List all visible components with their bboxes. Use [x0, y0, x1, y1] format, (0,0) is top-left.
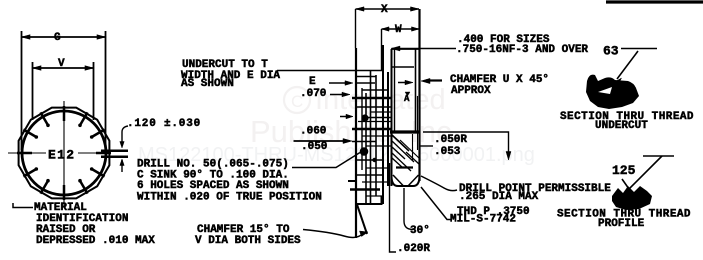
material leader: [13, 203, 33, 208]
dimension G arrowheads: [22, 35, 106, 39]
section blob profile: [612, 186, 652, 210]
svg-text:.053: .053: [434, 146, 461, 158]
svg-text:APPROX: APPROX: [451, 85, 491, 97]
svg-text:V DIA BOTH SIDES: V DIA BOTH SIDES: [195, 235, 301, 247]
head inner step: [392, 66, 414, 68]
extension line V left: [32, 62, 34, 120]
dimension G line: [22, 36, 106, 38]
svg-text:63: 63: [603, 44, 619, 59]
inner vertical shank line: [415, 49, 417, 131]
svg-text:.070: .070: [300, 88, 326, 100]
svg-text:30°: 30°: [410, 225, 430, 237]
chamfer15 leader: [303, 230, 363, 238]
.070 leader: [330, 94, 346, 96]
svg-text:WITHIN .020 OF TRUE POSITION: WITHIN .020 OF TRUE POSITION: [137, 192, 322, 204]
flange line thick: [390, 130, 420, 133]
border line top right: [606, 0, 703, 3]
svg-text:.120 ±.030: .120 ±.030: [127, 118, 201, 130]
svg-text:.050: .050: [301, 141, 327, 153]
section lattice horizontals: [356, 76, 376, 78]
svg-text:.265 DIA MAX: .265 DIA MAX: [459, 191, 539, 203]
svg-text:Integrated: Integrated: [315, 84, 446, 116]
svg-text:6 HOLES SPACED AS SHOWN: 6 HOLES SPACED AS SHOWN: [137, 180, 289, 192]
63 finish symbol: [621, 48, 657, 50]
section blob undercut: [586, 75, 639, 109]
.050R top leader with corner arrow: [423, 132, 509, 155]
12-point ticks: [17, 106, 111, 200]
bolt tip bottom edge with rounded corners: [392, 176, 420, 186]
svg-text:E: E: [309, 76, 316, 88]
tiny arrow above A label: [405, 92, 410, 96]
watermark line1 (c) Integrated: [138, 84, 535, 166]
W dimension line: [382, 28, 420, 30]
tip chamfer diagonals: [393, 175, 403, 186]
E leader: [329, 82, 349, 84]
leader to drill point text: [421, 176, 457, 191]
svg-text:UNDERCUT: UNDERCUT: [595, 120, 648, 132]
undercut leader: [277, 70, 383, 72]
.060/.050 fraction bar leader: [294, 140, 347, 142]
svg-text:A: A: [404, 94, 410, 104]
X dimension line: [356, 8, 420, 10]
svg-text:E12: E12: [48, 148, 75, 163]
svg-text:W: W: [395, 24, 402, 36]
svg-text:G: G: [54, 32, 61, 44]
125 finish symbol: [643, 155, 674, 157]
svg-text:125: 125: [612, 163, 636, 178]
leader to mil-s-7742: [421, 187, 452, 220]
dimension V line: [33, 67, 94, 69]
svg-text:DEPRESSED .010 MAX: DEPRESSED .010 MAX: [36, 235, 155, 247]
head circle: [22, 111, 106, 195]
dimension V arrowheads: [33, 66, 94, 70]
.050R mid leader: [420, 145, 433, 147]
thread inner dash: [396, 166, 413, 168]
svg-text:MIL-S-7742: MIL-S-7742: [450, 214, 516, 226]
X extension left: [355, 9, 357, 48]
svg-text:.050R: .050R: [434, 134, 467, 146]
svg-text:X: X: [381, 4, 388, 16]
dodecagon outline: [19, 108, 110, 199]
extension line G right: [105, 31, 107, 150]
svg-text:.060: .060: [300, 126, 326, 138]
thread minor dia line: [412, 134, 414, 160]
extension line G left: [21, 31, 23, 150]
drill no leader: [292, 153, 360, 168]
vertical centerline: [63, 101, 65, 207]
extension line V right: [93, 62, 95, 120]
svg-text:.750-16NF-3 AND OVER: .750-16NF-3 AND OVER: [456, 44, 588, 56]
svg-text:AS SHOWN: AS SHOWN: [181, 78, 234, 90]
horizontal centerline: [8, 152, 98, 154]
chamfer 15 diagonal: [357, 205, 367, 235]
30 deg callout line: [404, 188, 413, 230]
junction blob 2: [360, 147, 369, 156]
bolt side view right edge: [418, 9, 420, 181]
svg-text:V: V: [58, 58, 65, 70]
A dim arrow: [398, 82, 409, 84]
section bottom edge: [356, 196, 382, 204]
junction blob 3: [372, 158, 376, 162]
flange edge bars right of circle: [101, 150, 128, 153]
thread hatch diagonals: [392, 135, 409, 151]
small arrow into section at 116: [340, 116, 348, 118]
.120 dim leader bracket and arrows: [122, 126, 128, 144]
tick inner arrow dots: [35, 124, 94, 183]
bolt side view left edge: [391, 49, 393, 186]
svg-text:.020R: .020R: [397, 243, 430, 255]
svg-text:PROFILE: PROFILE: [598, 218, 645, 230]
W extension: [381, 29, 383, 70]
bolt top edge: [392, 48, 420, 50]
junction blob 1: [361, 114, 368, 121]
bolt section left edge: [355, 48, 357, 238]
chamfer U leader dash: [426, 79, 442, 81]
section lattice verticals: [361, 88, 363, 170]
.400 leader line: [392, 48, 457, 50]
.020R callout line: [390, 163, 397, 252]
